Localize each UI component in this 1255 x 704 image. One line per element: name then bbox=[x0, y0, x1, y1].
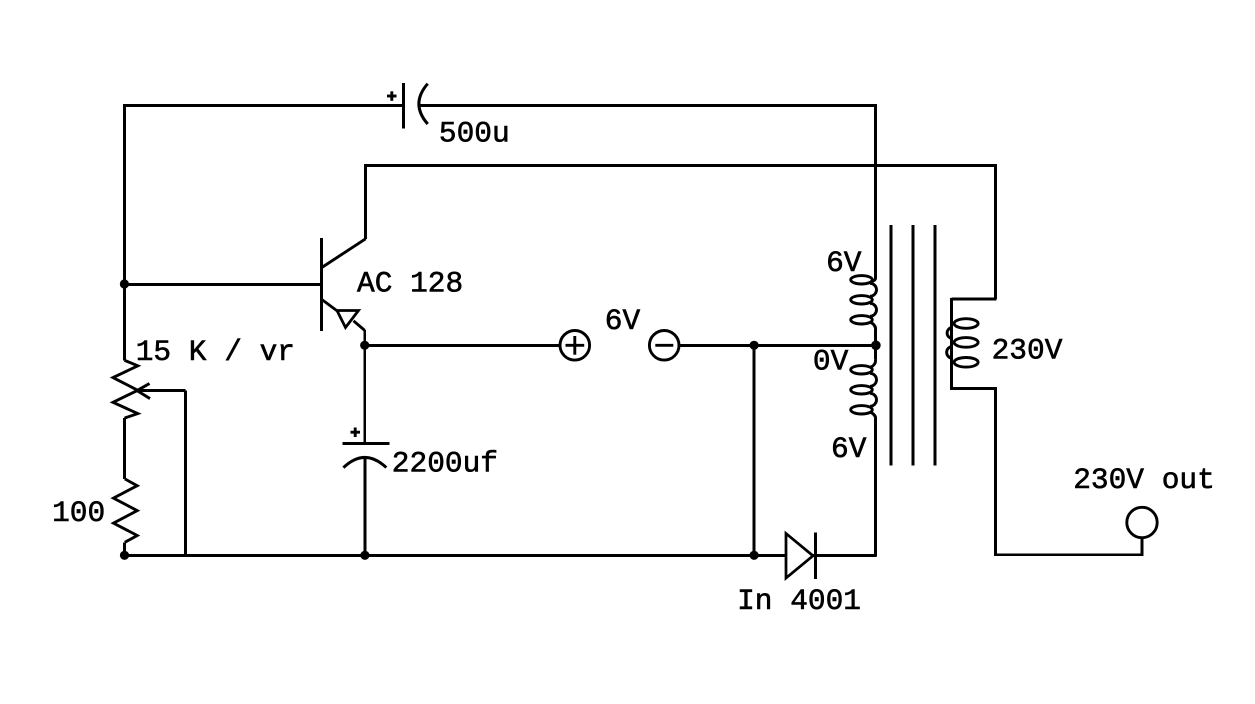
svg-text:100: 100 bbox=[52, 496, 105, 530]
svg-text:230V out: 230V out bbox=[1073, 463, 1215, 497]
svg-text:In 4001: In 4001 bbox=[737, 584, 861, 618]
svg-text:6V: 6V bbox=[605, 304, 641, 338]
svg-text:0V: 0V bbox=[813, 345, 849, 379]
svg-text:15 K / vr: 15 K / vr bbox=[136, 335, 295, 369]
svg-text:6V: 6V bbox=[826, 246, 862, 280]
svg-text:230V: 230V bbox=[992, 334, 1063, 368]
svg-text:6V: 6V bbox=[831, 432, 867, 466]
svg-text:AC 128: AC 128 bbox=[357, 267, 463, 301]
svg-text:500u: 500u bbox=[439, 117, 510, 151]
svg-text:2200uf: 2200uf bbox=[392, 447, 498, 481]
